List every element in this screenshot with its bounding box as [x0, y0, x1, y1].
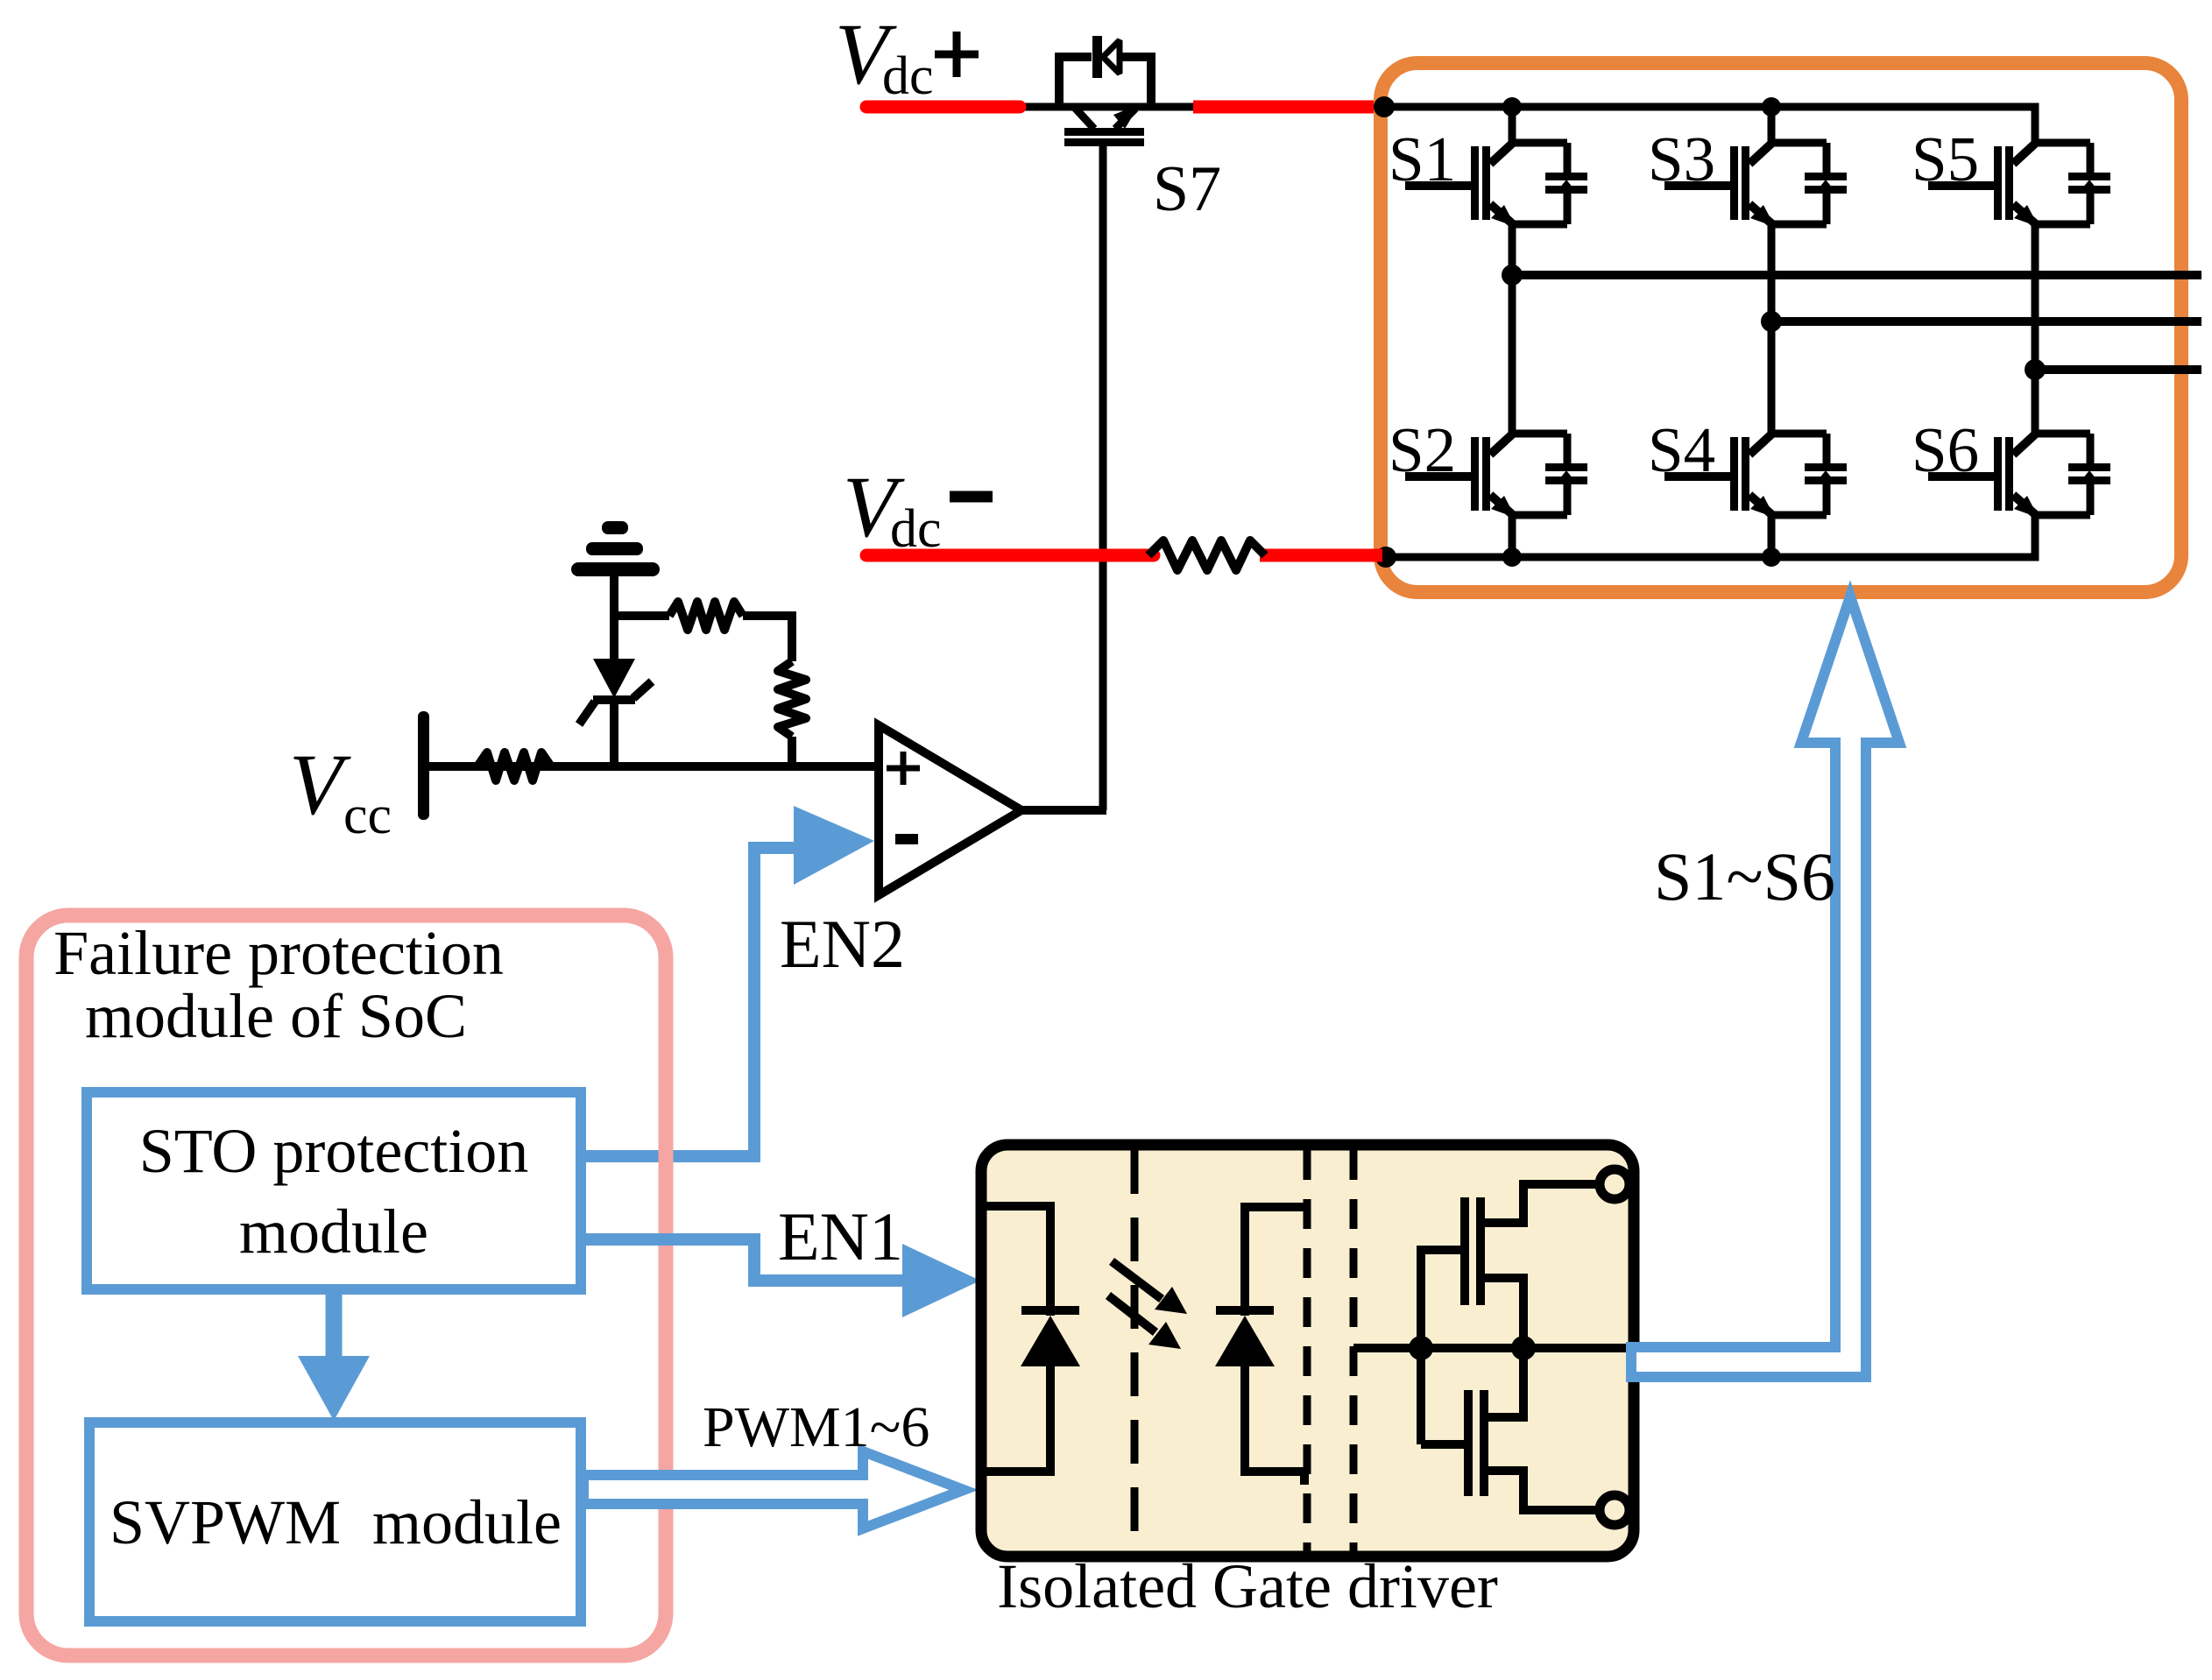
- resistor in Vdc- line: [1148, 540, 1265, 570]
- EN1 arrowhead: [902, 1244, 980, 1317]
- svg-text:S7: S7: [1153, 153, 1221, 225]
- svg-text:module: module: [239, 1196, 428, 1267]
- terminal circle bottom: [1600, 1495, 1629, 1525]
- node dot phase C midpoint: [2025, 359, 2046, 380]
- output MOSFET bottom: [1421, 1348, 1601, 1510]
- wire DC+ top bus: [1382, 107, 2035, 143]
- resistor vertical to comparator input: [778, 661, 806, 737]
- svg-text:SVPWM module: SVPWM module: [110, 1487, 562, 1557]
- EN2 signal wire (blue): [581, 848, 795, 1156]
- svg-text:S1~S6: S1~S6: [1654, 838, 1835, 914]
- svg-text:S5: S5: [1912, 124, 1979, 194]
- svg-text:V: V: [289, 736, 351, 833]
- node dot source rail: [1511, 1336, 1536, 1360]
- resistor in Vcc line: [477, 752, 551, 780]
- photodiode: [1216, 1207, 1304, 1485]
- wire ground stem: [610, 576, 618, 616]
- svg-text:S6: S6: [1912, 414, 1979, 485]
- transistor S4 (IGBT with freewheel diode): [1664, 434, 1847, 518]
- wire phase C output: [2035, 365, 2201, 374]
- svg-text:S1: S1: [1389, 124, 1456, 194]
- S1~S6 bus arrow (hollow blue): [1631, 596, 1899, 1377]
- node dot bottom bus leg2: [1762, 547, 1781, 567]
- svg-text:Failure protection: Failure protection: [53, 918, 504, 988]
- isolation dashed line 3: [1350, 1150, 1358, 1551]
- svg-text:S4: S4: [1648, 414, 1715, 485]
- svg-text:Isolated Gate driver: Isolated Gate driver: [997, 1551, 1498, 1621]
- transistor S3 (IGBT with freewheel diode): [1664, 143, 1847, 227]
- wire phase leg 3 verticals: [2032, 107, 2039, 558]
- SVPWM module box: [89, 1422, 581, 1621]
- wire Vdc- red right segment: [1260, 549, 1382, 562]
- Vcc terminal bar: [418, 711, 429, 820]
- node dot top bus leg1: [1502, 97, 1522, 116]
- node dot gate rail: [1409, 1336, 1433, 1360]
- failure protection module of SoC (pink box): [26, 915, 666, 1655]
- wire phase leg 2 verticals: [1768, 107, 1776, 558]
- transistor S7 (IGBT with antiparallel diode): [1059, 36, 1151, 146]
- svg-text:STO protection: STO protection: [139, 1116, 529, 1186]
- node dot Vdc+ entry: [1374, 96, 1395, 117]
- transistor S6 (IGBT with freewheel diode): [1928, 434, 2110, 518]
- zener diode (TVS): [579, 659, 652, 724]
- svg-text:EN2: EN2: [780, 906, 905, 982]
- PWM1~6 bus arrow (hollow blue): [583, 1451, 964, 1528]
- svg-text:S3: S3: [1648, 124, 1715, 194]
- isolated gate driver box: [981, 1145, 1634, 1556]
- node dot bottom bus leg1: [1502, 547, 1522, 567]
- svg-text:PWM1~6: PWM1~6: [703, 1395, 929, 1459]
- LED input diode: [986, 1206, 1079, 1472]
- STO protection module box: [87, 1092, 581, 1289]
- wire Vdc- red left segment: [866, 549, 1154, 562]
- wire phase leg 1 verticals: [1509, 107, 1516, 558]
- wire Vdc+ red right segment: [1193, 101, 1377, 114]
- wire Vdc+ bus black: [1020, 103, 1382, 111]
- transistor S2 (IGBT with freewheel diode): [1405, 434, 1587, 518]
- wire Vdc+ red left segment: [866, 101, 1020, 114]
- wire comparator output: [1021, 806, 1106, 815]
- svg-text:dc: dc: [882, 46, 934, 106]
- driver output mid wire: [1353, 1344, 1628, 1352]
- isolation dashed line 2: [1304, 1150, 1311, 1551]
- minus input marking: [895, 834, 918, 844]
- terminal circle top: [1600, 1169, 1629, 1199]
- transistor S5 (IGBT with freewheel diode): [1928, 143, 2110, 227]
- optocoupler light arrows: [1108, 1261, 1162, 1332]
- output MOSFET top: [1421, 1184, 1601, 1444]
- wire DC- bottom bus: [1386, 515, 2035, 557]
- wire corner down: [788, 611, 796, 661]
- node dot phase A midpoint: [1502, 265, 1523, 286]
- transistor S1 (IGBT with freewheel diode): [1405, 143, 1587, 227]
- svg-text:S2: S2: [1389, 414, 1456, 485]
- wire phase A output: [1512, 271, 2201, 279]
- resistor R-feedback horizontal: [669, 602, 743, 630]
- gate wire of S7 down to comparator output: [1099, 146, 1107, 810]
- wire to feedback resistor: [614, 611, 669, 620]
- wire phase B output: [1771, 317, 2201, 326]
- svg-text:module of SoC: module of SoC: [85, 981, 467, 1051]
- isolation dashed line 1: [1131, 1150, 1139, 1551]
- node dot phase B midpoint: [1761, 311, 1782, 332]
- op-amp comparator U1: [879, 725, 1021, 895]
- svg-text:EN1: EN1: [778, 1198, 903, 1274]
- arrow STO to SVPWM (blue): [326, 1289, 343, 1363]
- svg-text:cc: cc: [343, 786, 392, 845]
- EN1 signal wire (blue): [581, 1239, 904, 1281]
- plus input marking: [887, 752, 920, 785]
- wire zener branch: [610, 616, 618, 659]
- EN2 arrowhead: [794, 806, 874, 885]
- ground symbol: [571, 521, 660, 576]
- wire Vcc to comparator: [425, 762, 879, 771]
- inverter module box (orange): [1381, 63, 2181, 592]
- node dot Vdc- entry: [1375, 547, 1396, 568]
- node dot top bus leg2: [1762, 97, 1781, 116]
